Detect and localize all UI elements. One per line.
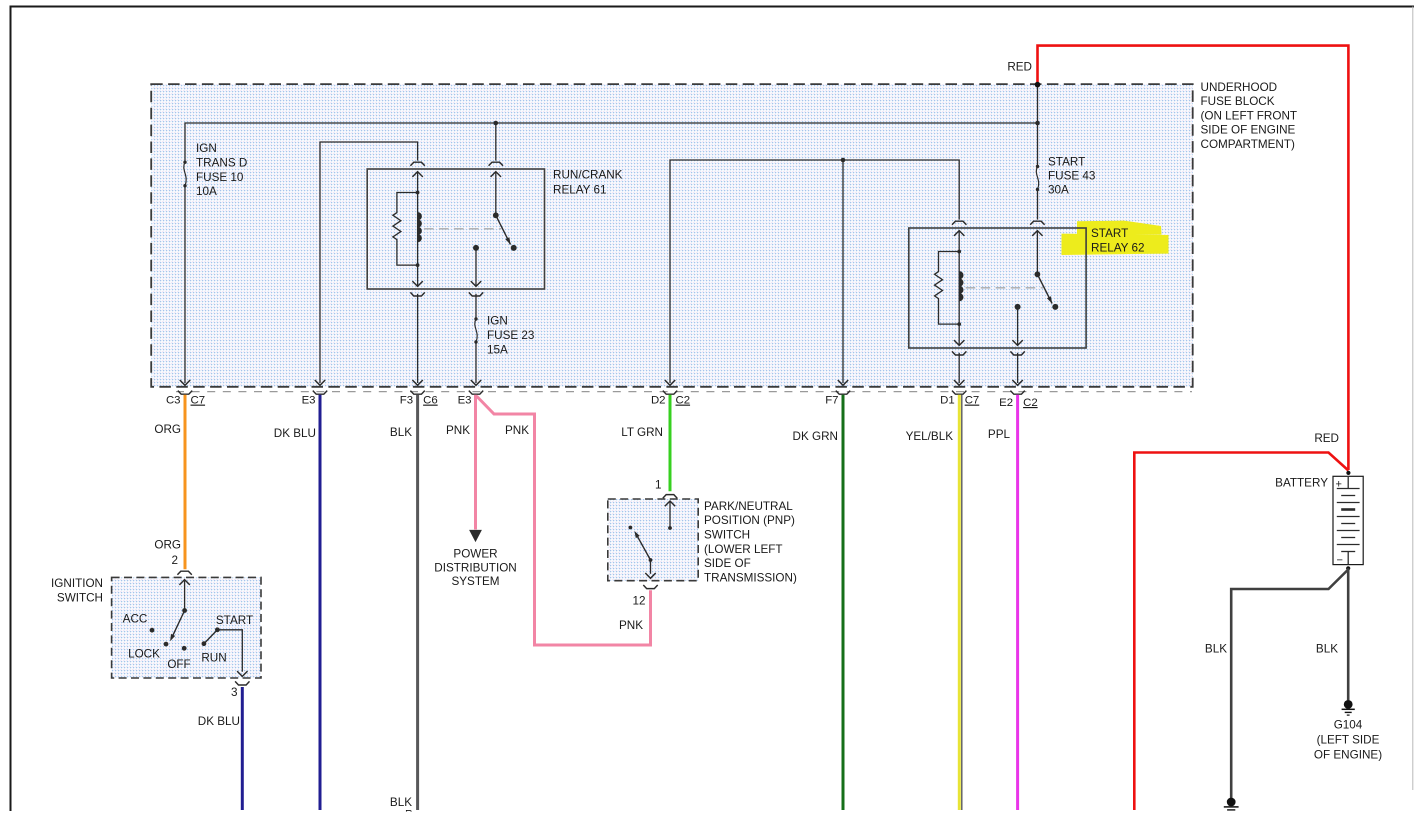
wire start relay coil bottom to D1 connector — [958, 353, 960, 383]
PNP switch pin 1 bump — [663, 495, 677, 499]
relay RUN/CRANK 61 coil pin bottom bump — [410, 292, 424, 296]
svg-text:BLK: BLK — [1205, 643, 1227, 656]
svg-text:SIDE OF ENGINE: SIDE OF ENGINE — [1201, 124, 1296, 137]
svg-text:ORG: ORG — [154, 423, 181, 436]
relay START 62 coil pin bottom arrow — [958, 324, 960, 345]
battery positive node — [1346, 471, 1350, 475]
relay RUN/CRANK 61 output pin bottom bump — [469, 292, 483, 296]
ignition switch box — [112, 577, 261, 678]
ignition switch pin 3 bump — [235, 681, 249, 685]
svg-text:RED: RED — [1007, 61, 1032, 74]
svg-text:RUN: RUN — [201, 652, 226, 665]
svg-text:C3: C3 — [166, 395, 181, 407]
svg-text:C2: C2 — [1023, 397, 1038, 409]
relay START 62 switch arm — [1037, 274, 1052, 303]
connector F7 at fuse block edge — [838, 380, 848, 385]
svg-text:F3: F3 — [400, 395, 413, 407]
svg-text:E3: E3 — [458, 395, 472, 407]
relay START 62 mechanical link — [966, 287, 1043, 289]
svg-text:SWITCH: SWITCH — [704, 529, 750, 542]
svg-text:BLK: BLK — [390, 796, 412, 809]
svg-text:TRANSMISSION): TRANSMISSION) — [704, 572, 797, 585]
svg-text:UNDERHOOD: UNDERHOOD — [1201, 81, 1278, 94]
PNP switch pin 12 bump — [643, 585, 657, 589]
wire fuse43 down to start relay switch — [1037, 191, 1039, 220]
ground G104 symbol — [1344, 700, 1353, 709]
wire E3 connector up and over to run/crank coil — [320, 142, 418, 383]
svg-text:IGN: IGN — [196, 142, 217, 155]
ignition switch position dots — [150, 628, 155, 633]
wire YEL from D1 to page bottom — [958, 395, 961, 810]
node bus junction at start relay feed — [1035, 121, 1040, 126]
fuse F10 IGN TRANS D FUSE 10 10A — [184, 162, 186, 186]
bottom crop — [0, 812, 1415, 819]
wire red junction down to start fuse 43 — [1037, 85, 1039, 166]
svg-text:DK BLU: DK BLU — [198, 715, 240, 728]
relay RUN/CRANK 61 output pin — [473, 245, 479, 251]
svg-text:SYSTEM: SYSTEM — [451, 575, 499, 588]
svg-text:(ON LEFT FRONT: (ON LEFT FRONT — [1201, 109, 1298, 122]
svg-text:COMPARTMENT): COMPARTMENT) — [1201, 138, 1295, 151]
svg-text:FUSE 43: FUSE 43 — [1048, 170, 1095, 183]
wire RED from battery positive down page left branch — [1134, 453, 1348, 811]
svg-text:RUN/CRANK: RUN/CRANK — [553, 169, 623, 182]
svg-text:(LOWER LEFT: (LOWER LEFT — [704, 543, 783, 556]
PNP switch output arrow to pin 12 — [650, 560, 652, 574]
wire PNK from E3 straight down to power distribution arrow — [474, 395, 477, 530]
relay START 62 switch pin top bump — [1030, 221, 1044, 225]
connector F3/C6 at fuse block edge — [412, 380, 422, 385]
svg-text:C7: C7 — [191, 395, 206, 407]
relay START 62 output pin — [1015, 304, 1021, 310]
ignition switch RUN-START link — [204, 630, 218, 644]
svg-text:3: 3 — [231, 686, 238, 699]
underhood fuse block box — [151, 84, 1193, 387]
wire DK BLU from E3 to page bottom — [319, 395, 322, 810]
relay START 62 switch common — [1035, 271, 1041, 277]
svg-text:IGNITION: IGNITION — [51, 577, 103, 590]
PNP switch pivot dot — [649, 558, 653, 562]
svg-text:OF ENGINE): OF ENGINE) — [1314, 749, 1382, 762]
svg-text:10A: 10A — [196, 185, 217, 198]
svg-text:POWER: POWER — [453, 548, 497, 561]
relay START 62 contact — [1052, 304, 1058, 310]
relay START 62 box — [909, 228, 1086, 348]
wire LT GRN from D2 to PNP switch pin 1 — [669, 395, 672, 491]
relay RUN/CRANK 61 switch arrow — [491, 172, 501, 177]
battery negative node — [1346, 566, 1350, 570]
wire junction down to F7 connector — [842, 160, 844, 383]
wire run/crank coil bottom to F3 connector — [417, 294, 419, 383]
svg-text:YEL/BLK: YEL/BLK — [906, 430, 954, 443]
relay START 62 output pin bottom bump — [1010, 351, 1024, 355]
relay RUN/CRANK 61 coil — [417, 193, 419, 266]
node bus junction at run/crank relay switch — [494, 121, 499, 126]
svg-text:OFF: OFF — [167, 658, 190, 671]
wire YEL/BLK black stripe — [961, 395, 963, 810]
connector C3/C7 at fuse block edge — [180, 380, 190, 385]
svg-text:PARK/NEUTRAL: PARK/NEUTRAL — [704, 500, 793, 513]
PNP switch feed arrow — [665, 501, 675, 506]
svg-text:POSITION (PNP): POSITION (PNP) — [704, 514, 795, 527]
svg-text:30A: 30A — [1048, 184, 1069, 197]
connector E2/C2 at fuse block edge — [1012, 380, 1022, 385]
svg-text:RELAY 61: RELAY 61 — [553, 184, 607, 197]
svg-text:START: START — [216, 614, 253, 627]
wire fuse23 down to E3 connector — [475, 344, 477, 384]
wire DK GRN from F7 to page bottom — [842, 395, 845, 810]
svg-text:−: − — [1337, 555, 1343, 567]
wire ORG from C3 to ignition switch pin 2 — [184, 395, 187, 569]
svg-text:TRANS D: TRANS D — [196, 157, 247, 170]
relay RUN/CRANK 61 coil pin arrow — [412, 172, 422, 177]
svg-text:C6: C6 — [423, 395, 438, 407]
svg-text:FUSE 23: FUSE 23 — [487, 329, 534, 342]
power distribution system arrow — [469, 530, 482, 542]
relay START 62 switch arrow — [1032, 231, 1042, 236]
node RED junction on fuse block border — [1035, 82, 1041, 88]
svg-text:BLK: BLK — [1316, 643, 1338, 656]
svg-text:FUSE BLOCK: FUSE BLOCK — [1201, 95, 1275, 108]
PNP switch contact dot left — [629, 526, 633, 530]
relay RUN/CRANK 61 box — [367, 169, 544, 289]
relay RUN/CRANK 61 switch pin top bump — [489, 162, 503, 166]
svg-text:F7: F7 — [825, 395, 838, 407]
relay RUN/CRANK 61 mechanical link — [424, 228, 501, 230]
node junction for F7 tap — [841, 158, 846, 163]
battery plates — [1347, 477, 1349, 489]
svg-text:BLK: BLK — [390, 426, 412, 439]
relay START 62 coil — [958, 252, 960, 325]
svg-text:SIDE OF: SIDE OF — [704, 557, 751, 570]
wire RED from fuse block top to battery positive — [1038, 46, 1349, 470]
ignition switch feed arrow — [179, 580, 189, 585]
relay RUN/CRANK 61 switch arm — [496, 215, 511, 244]
svg-text:START: START — [1048, 155, 1085, 168]
svg-text:15A: 15A — [487, 344, 508, 357]
wire run/crank output down to fuse 23 — [475, 294, 477, 319]
wire PPL from E2 to page bottom — [1016, 395, 1019, 810]
wire run/crank switch common up to bus — [495, 123, 497, 161]
svg-text:2: 2 — [171, 554, 178, 567]
relay RUN/CRANK 61 switch common — [493, 212, 499, 218]
relay RUN/CRANK 61 contact — [511, 245, 517, 251]
wire D2 connector up, across to start relay coil — [670, 160, 959, 383]
svg-text:IGN: IGN — [487, 315, 508, 328]
svg-text:PNK: PNK — [505, 424, 529, 437]
relay START 62 resistor — [935, 252, 960, 325]
ignition switch START output to pin 3 — [217, 630, 242, 672]
fuse F23 IGN FUSE 23 15A — [475, 319, 477, 342]
svg-text:FUSE 10: FUSE 10 — [196, 171, 244, 184]
ignition switch arm to LOCK — [172, 611, 185, 639]
svg-text:D2: D2 — [651, 395, 666, 407]
svg-text:E3: E3 — [302, 395, 316, 407]
svg-text:E2: E2 — [999, 397, 1013, 409]
svg-text:SWITCH: SWITCH — [57, 592, 103, 605]
relay RUN/CRANK 61 resistor — [393, 193, 418, 266]
PNP switch arm — [637, 535, 651, 560]
wire BLK from F3 to page bottom — [416, 395, 419, 810]
relay RUN/CRANK 61 coil pin top bump — [410, 162, 424, 166]
wire BLK battery negative to G104 — [1347, 568, 1350, 700]
battery box — [1333, 476, 1363, 564]
yellow highlight START RELAY 62 — [1077, 221, 1162, 235]
PNP switch contact dot right — [668, 526, 672, 530]
svg-text:BATTERY: BATTERY — [1275, 477, 1328, 490]
relay START 62 coil pin arrow — [954, 231, 964, 236]
svg-text:12: 12 — [632, 595, 645, 608]
wire bus from fuse10 down-corner across to start feed — [185, 123, 1038, 161]
park/neutral position switch box — [608, 499, 698, 581]
wire start relay output down to E2 connector — [1017, 353, 1019, 383]
relay RUN/CRANK 61 coil pin bottom arrow — [417, 265, 419, 286]
svg-text:PPL: PPL — [988, 428, 1011, 441]
connector E3 at fuse block edge — [471, 380, 481, 385]
ignition switch pin 2 bump — [177, 571, 191, 575]
svg-text:DISTRIBUTION: DISTRIBUTION — [434, 561, 516, 574]
wire BLK battery negative left branch — [1231, 570, 1348, 799]
svg-text:RED: RED — [1314, 432, 1339, 445]
connector D2/C2 at fuse block edge — [665, 380, 675, 385]
svg-text:LT GRN: LT GRN — [621, 426, 663, 439]
relay START 62 coil pin bottom bump — [952, 351, 966, 355]
connector strip dashed line — [176, 391, 1192, 393]
svg-text:DK BLU: DK BLU — [274, 427, 316, 440]
connector D1/C7 at fuse block edge — [954, 380, 964, 385]
svg-text:START: START — [1091, 227, 1128, 240]
fuse F43 START FUSE 43 30A — [1036, 167, 1038, 190]
svg-text:C2: C2 — [676, 395, 691, 407]
ground symbol bottom left — [1227, 798, 1236, 807]
wire fuse10 down to C3 connector — [184, 187, 186, 383]
svg-text:(LEFT SIDE: (LEFT SIDE — [1317, 734, 1380, 747]
svg-text:C7: C7 — [965, 395, 980, 407]
svg-text:PNK: PNK — [619, 619, 643, 632]
ignition switch rotor dot — [182, 608, 187, 613]
wire DK BLU from pin 3 to page bottom — [241, 687, 244, 810]
svg-text:DK GRN: DK GRN — [793, 430, 838, 443]
connector E3 at fuse block edge — [315, 380, 325, 385]
svg-text:G104: G104 — [1334, 719, 1363, 732]
svg-text:ACC: ACC — [123, 613, 148, 626]
svg-text:LOCK: LOCK — [128, 648, 160, 661]
svg-text:D1: D1 — [940, 395, 955, 407]
svg-text:RELAY 62: RELAY 62 — [1091, 241, 1145, 254]
svg-text:1: 1 — [655, 479, 662, 492]
wire PNK branch to PNP switch pin 12 — [477, 396, 651, 645]
relay START 62 coil pin top bump — [952, 221, 966, 225]
svg-text:ORG: ORG — [154, 539, 181, 552]
svg-text:PNK: PNK — [446, 424, 470, 437]
